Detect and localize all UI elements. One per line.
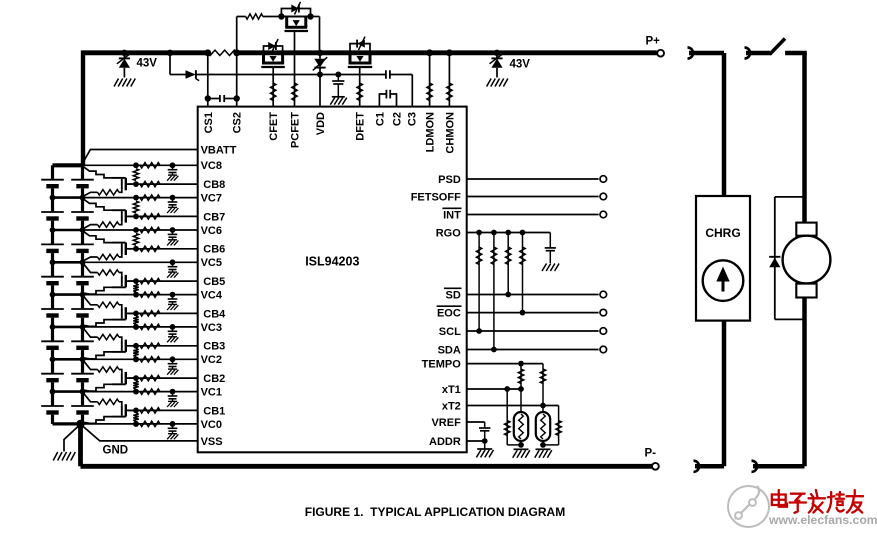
svg-text:CHMON: CHMON <box>444 112 456 154</box>
svg-text:CFET: CFET <box>268 112 280 141</box>
svg-text:TEMPO: TEMPO <box>422 359 462 371</box>
svg-text:SCL: SCL <box>439 326 461 338</box>
svg-text:C3: C3 <box>407 112 419 126</box>
svg-text:ISL94203: ISL94203 <box>305 254 359 268</box>
svg-text:xT1: xT1 <box>442 384 461 396</box>
svg-text:VC6: VC6 <box>201 225 222 237</box>
svg-text:VSS: VSS <box>201 436 223 448</box>
svg-text:VDD: VDD <box>315 112 327 135</box>
svg-text:VC0: VC0 <box>201 419 222 431</box>
svg-text:CB7: CB7 <box>203 211 225 223</box>
svg-text:VREF: VREF <box>431 417 461 429</box>
svg-text:CS1: CS1 <box>203 112 215 133</box>
svg-text:C2: C2 <box>392 112 404 126</box>
svg-text:VBATT: VBATT <box>201 144 237 156</box>
svg-text:P+: P+ <box>646 36 661 48</box>
svg-text:CB8: CB8 <box>203 179 225 191</box>
svg-text:ADDR: ADDR <box>429 436 461 448</box>
svg-text:VC7: VC7 <box>201 193 222 205</box>
svg-text:43V: 43V <box>510 59 531 71</box>
svg-text:www.elecfans.com: www.elecfans.com <box>768 513 877 527</box>
svg-text:CB6: CB6 <box>203 244 225 256</box>
svg-text:FIGURE 1. TYPICAL APPLICATION: FIGURE 1. TYPICAL APPLICATION DIAGRAM <box>305 505 565 519</box>
svg-text:VC4: VC4 <box>201 290 223 302</box>
svg-text:CB1: CB1 <box>203 405 225 417</box>
svg-text:SDA: SDA <box>438 345 461 357</box>
svg-text:PSD: PSD <box>438 174 461 186</box>
svg-text:DFET: DFET <box>355 112 367 141</box>
svg-text:CB5: CB5 <box>203 276 225 288</box>
svg-text:VC5: VC5 <box>201 257 222 269</box>
svg-text:VC1: VC1 <box>201 387 222 399</box>
svg-text:FETSOFF: FETSOFF <box>411 192 461 204</box>
svg-text:VC3: VC3 <box>201 322 222 334</box>
svg-text:LDMON: LDMON <box>425 112 437 152</box>
svg-text:xT2: xT2 <box>442 401 461 413</box>
svg-text:EOC: EOC <box>437 308 461 320</box>
svg-text:SD: SD <box>446 290 461 302</box>
svg-text:VC2: VC2 <box>201 354 222 366</box>
svg-text:CHRG: CHRG <box>705 226 740 240</box>
svg-text:INT: INT <box>443 210 461 222</box>
svg-text:PCFET: PCFET <box>290 112 302 148</box>
svg-text:CB3: CB3 <box>203 341 225 353</box>
svg-text:GND: GND <box>103 445 129 457</box>
svg-text:CB2: CB2 <box>203 373 225 385</box>
svg-text:P-: P- <box>645 448 657 460</box>
svg-text:C1: C1 <box>374 112 386 126</box>
svg-text:CS2: CS2 <box>232 112 244 133</box>
svg-text:CB4: CB4 <box>203 308 226 320</box>
svg-text:VC8: VC8 <box>201 160 222 172</box>
svg-text:RGO: RGO <box>436 228 462 240</box>
svg-text:43V: 43V <box>137 58 158 70</box>
